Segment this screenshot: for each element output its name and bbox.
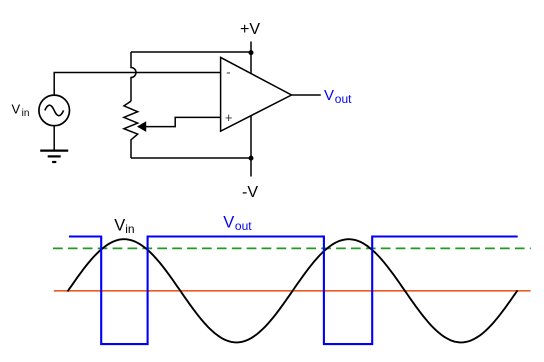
svg-text:V: V — [223, 214, 234, 232]
svg-text:V: V — [324, 87, 334, 104]
svg-text:+V: +V — [240, 21, 260, 38]
svg-text:in: in — [125, 222, 134, 236]
svg-text:V: V — [114, 216, 125, 234]
svg-text:-V: -V — [242, 184, 258, 201]
svg-text:V: V — [12, 102, 21, 117]
svg-text:+: + — [225, 110, 233, 125]
svg-text:out: out — [235, 219, 252, 233]
svg-text:out: out — [335, 92, 352, 106]
svg-text:in: in — [22, 108, 30, 119]
svg-text:-: - — [226, 65, 230, 80]
